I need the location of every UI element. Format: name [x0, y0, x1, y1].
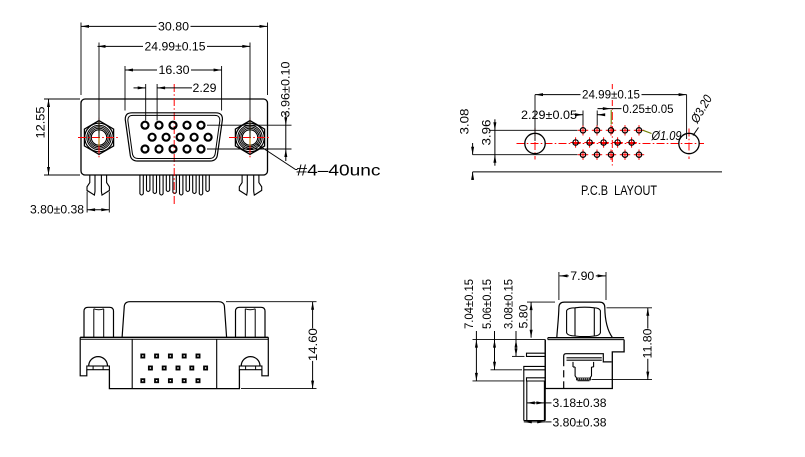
svg-text:12.55: 12.55: [35, 107, 47, 139]
svg-text:3.96±0.10: 3.96±0.10: [280, 62, 292, 118]
svg-text:7.90: 7.90: [570, 271, 594, 283]
svg-text:16.30: 16.30: [159, 65, 190, 77]
svg-text:24.99±0.15: 24.99±0.15: [145, 41, 206, 53]
svg-text:3.08±0.15: 3.08±0.15: [504, 279, 516, 329]
svg-text:Ø1.09: Ø1.09: [651, 129, 682, 143]
svg-text:14.60: 14.60: [308, 328, 320, 361]
svg-text:5.06±0.15: 5.06±0.15: [482, 279, 494, 329]
svg-text:3.80±0.38: 3.80±0.38: [30, 205, 84, 217]
svg-text:30.80: 30.80: [158, 21, 189, 33]
svg-text:3.96: 3.96: [482, 119, 494, 145]
svg-text:24.99±0.15: 24.99±0.15: [582, 90, 640, 102]
svg-text:2.29: 2.29: [193, 83, 217, 95]
svg-text:3.08: 3.08: [459, 109, 471, 135]
svg-text:#4–40unc: #4–40unc: [297, 163, 381, 180]
svg-text:P.C.B LAYOUT: P.C.B LAYOUT: [581, 183, 657, 198]
svg-text:3.18±0.38: 3.18±0.38: [553, 398, 607, 410]
svg-text:11.80: 11.80: [643, 329, 655, 359]
svg-text:3.80±0.38: 3.80±0.38: [553, 418, 607, 430]
svg-text:7.04±0.15: 7.04±0.15: [464, 279, 476, 329]
svg-text:2.29±0.05: 2.29±0.05: [521, 110, 577, 122]
svg-text:0.25±0.05: 0.25±0.05: [623, 104, 674, 116]
svg-text:5.80: 5.80: [519, 305, 531, 329]
